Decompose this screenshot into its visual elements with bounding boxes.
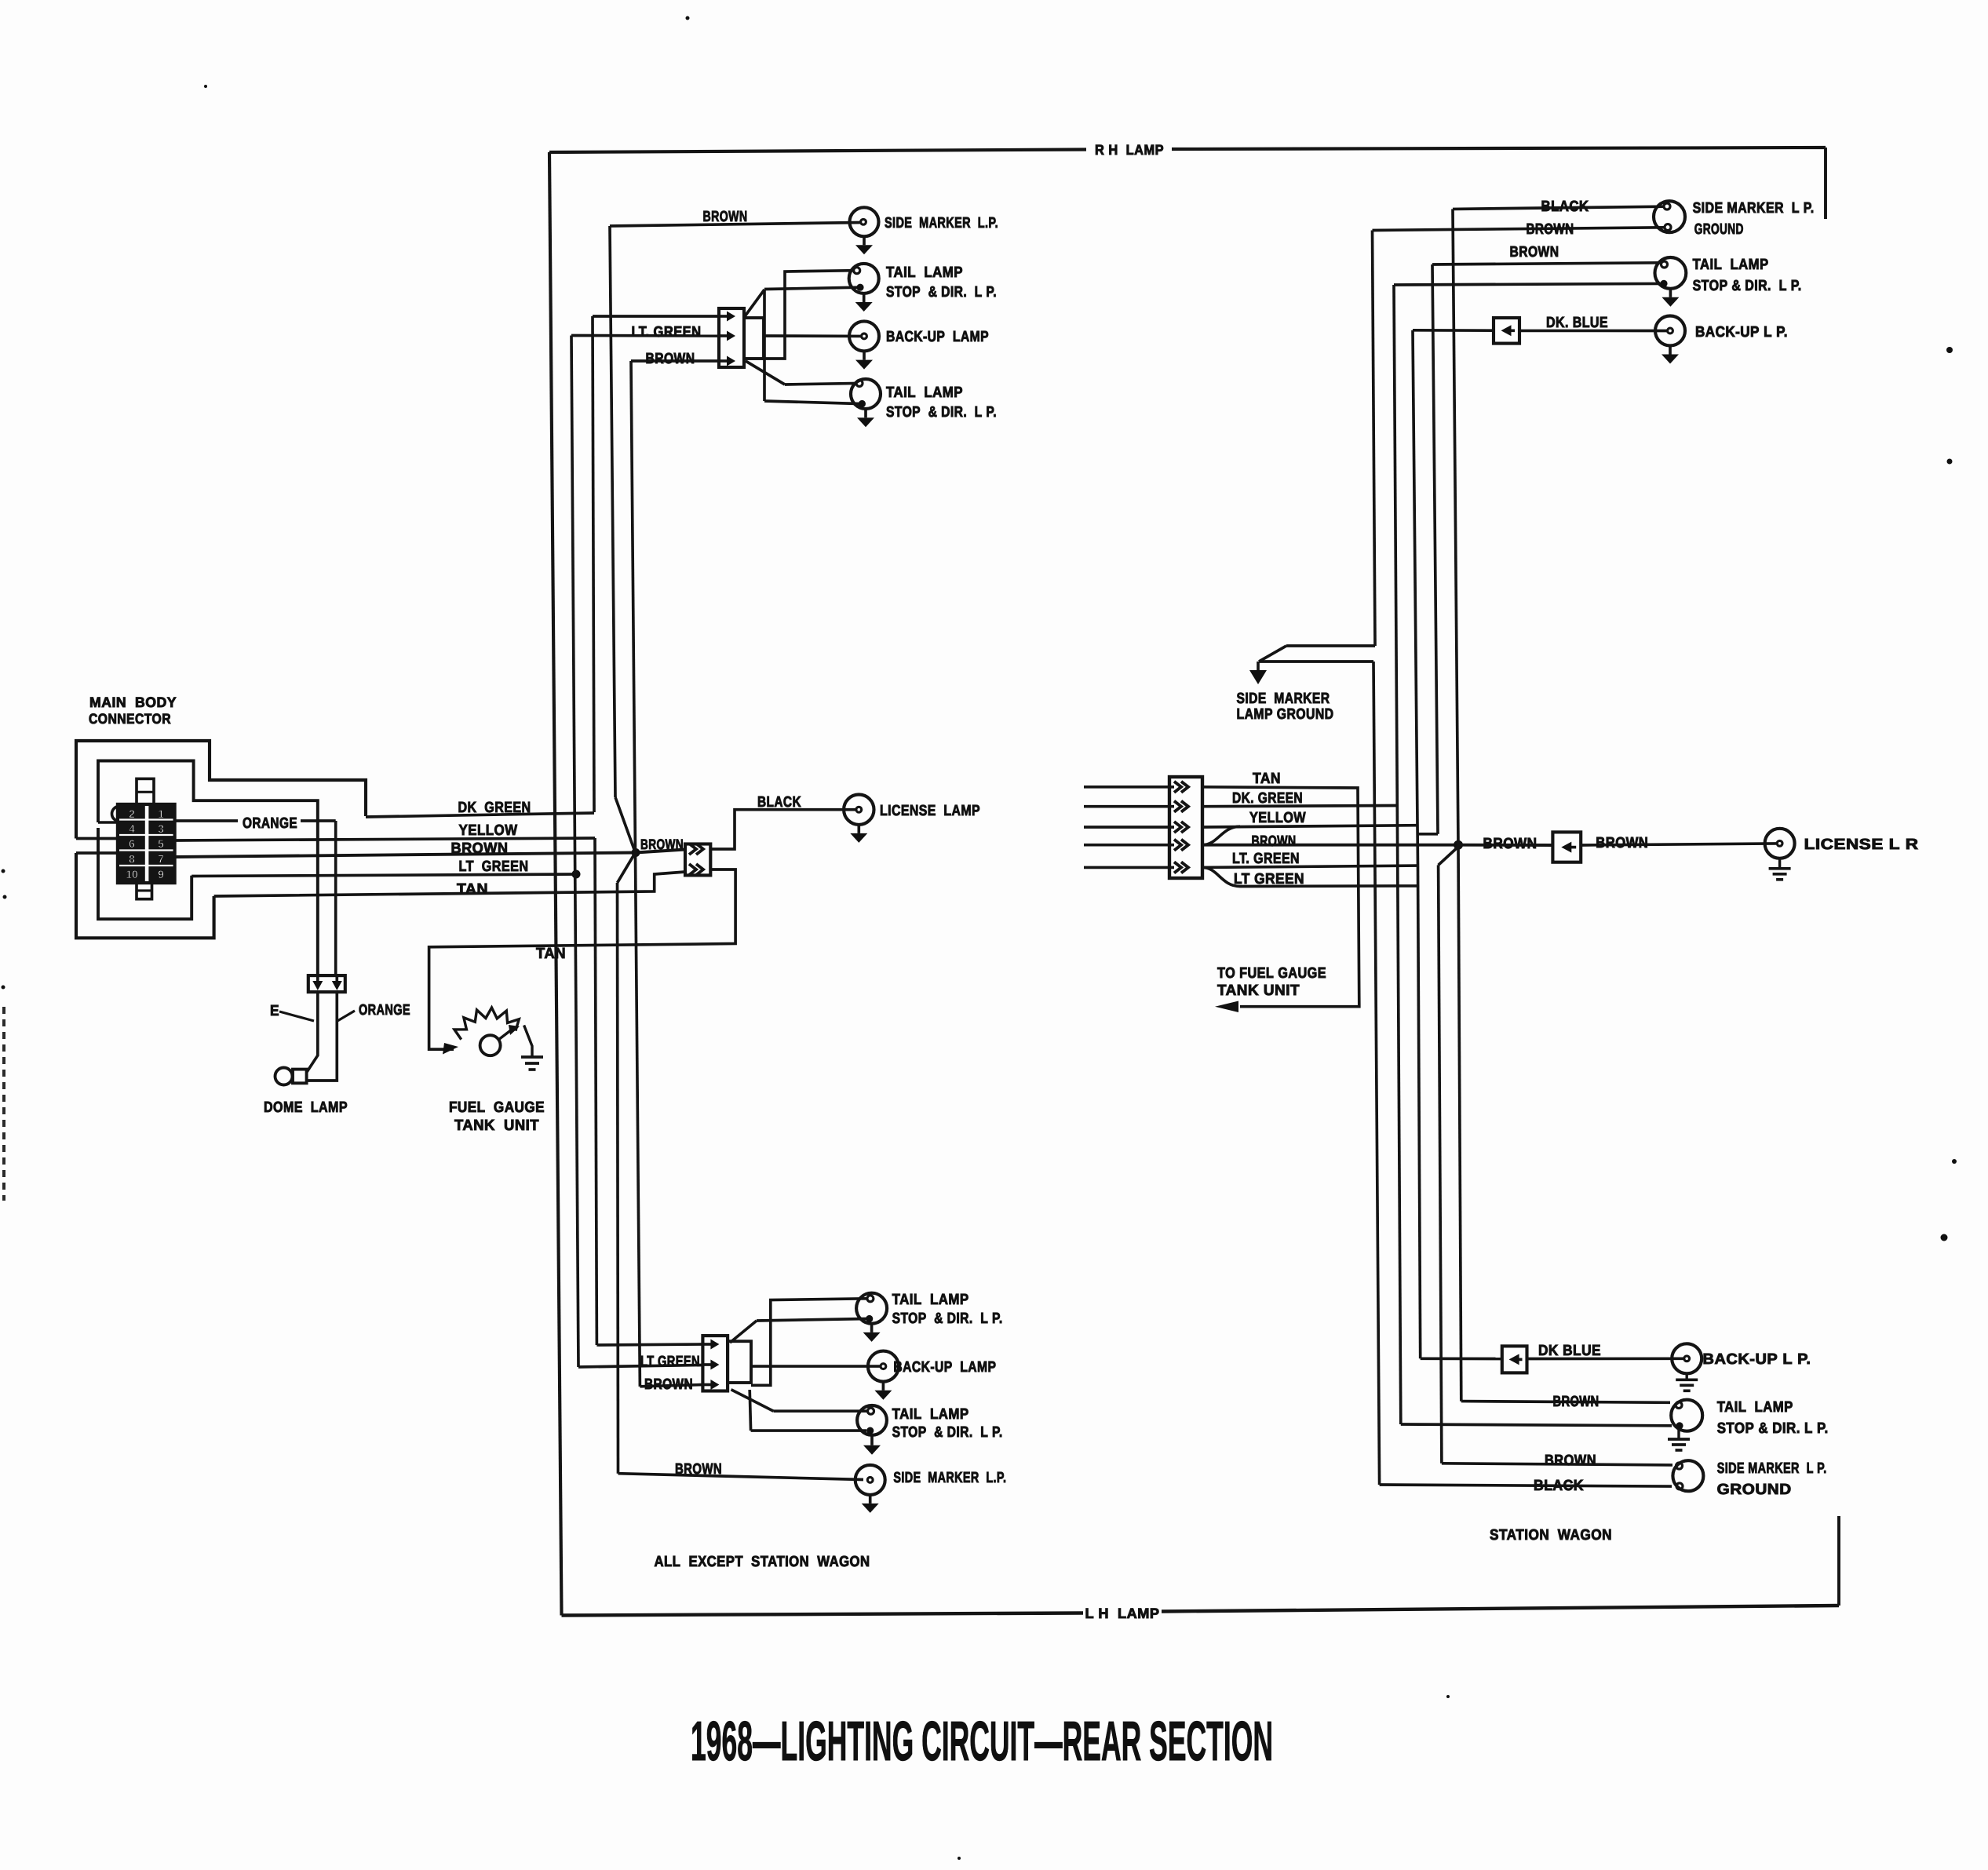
ground arrow below tail lamp 4 [870,1435,874,1445]
stub wire into pin YELLOW [1084,826,1174,829]
bus v3L diagonal out of BROWN junction [618,853,636,884]
svg-text:DK BLUE: DK BLUE [1538,1343,1601,1359]
wire LT GREEN to LH connector pin 2 [578,1365,703,1368]
side marker top terminal [1664,203,1670,210]
chassis ground below wagon bottom tail lamp [1677,1430,1680,1439]
svg-text:10: 10 [126,868,138,880]
license connector pin 1 chevrons [689,844,696,855]
svg-text:STOP & DIR. L P.: STOP & DIR. L P. [1693,278,1802,294]
lamp BACK-UP LAMP (RH) [764,334,861,337]
svg-text:4: 4 [129,822,135,835]
svg-text:TAN: TAN [1253,771,1281,787]
wire BROWN license connector to license lamp [1581,844,1776,845]
scan speck [1952,1159,1957,1164]
dome connector pin E arrow down [316,976,319,982]
fuel gauge wiper arm [498,1030,512,1040]
main body connector block [118,804,175,883]
svg-text:LICENSE L R: LICENSE L R [1804,837,1919,853]
tail lamp 1 tail terminal [854,268,860,274]
main body connector: inner outline lower (LT GREEN route) [98,828,192,919]
wagon bottom tail stop terminal dot [1676,1422,1683,1429]
bus v2 (DK GREEN stop/dir feed) [1394,285,1397,806]
main body connector: outer outline left stub upper [76,837,118,840]
svg-text:TAIL LAMP: TAIL LAMP [886,385,963,401]
scan speck [1946,347,1953,353]
main body connector block: center divider channel [145,806,149,881]
wire to DK BLUE connector (wagon top) [1413,329,1494,332]
wire BROWN to wagon top tail lamp [1432,263,1662,264]
ground arrow below wagon top tail lamp [1669,289,1672,297]
ground arrow below LH side marker [869,1495,872,1504]
svg-text:LT GREEN: LT GREEN [640,1354,700,1370]
wire BLACK to wagon top side marker [1453,206,1664,209]
bus v2L upper (DK GREEN feed to top connector) [593,316,594,812]
main body connector block: row separators [119,818,173,820]
svg-text:YELLOW: YELLOW [1249,810,1306,826]
main body connector block: bottom tab [137,883,152,899]
wire LT GREEN (wagon) lower branch with curve [1202,867,1418,886]
dome lamp connector (2-pin) [308,975,345,992]
svg-text:LT GREEN: LT GREEN [459,858,529,875]
wire ORANGE below connector to dome lamp [307,992,337,1081]
station wagon connector pin BROWN chevrons [1174,840,1181,851]
wire BLACK ground wagon bottom side marker [1380,1485,1672,1486]
wire TAN to fuel gauge (license pin2 exit loop) [429,869,736,1049]
lamp TAIL LAMP 1 (RH) [849,264,879,293]
bus v5 (BLACK / BROWN tail feed) [1453,209,1458,844]
junction dot BROWN node (wagon) [1454,840,1463,850]
svg-text:BLACK: BLACK [1534,1478,1584,1494]
stub wire into pin BROWN [1084,844,1174,847]
svg-text:MAIN BODY: MAIN BODY [89,694,177,710]
lamp TAIL LAMP 3 (LH) [856,1293,887,1324]
svg-text:TAN: TAN [536,946,566,962]
main body connector: outer harness outline upper-left [76,741,366,839]
station wagon connector pin YELLOW chevrons [1174,822,1181,833]
wire LT GREEN to RH connector pin 2 [571,334,720,337]
main body connector block: top tab [137,778,154,804]
svg-text:BROWN: BROWN [675,1461,722,1478]
connector DK BLUE (wagon top) [1494,318,1519,344]
wire YELLOW (wagon) to bus v4 with jog [1202,826,1417,827]
svg-text:DK. GREEN: DK. GREEN [1232,790,1303,807]
svg-text:FUEL GAUGE: FUEL GAUGE [449,1099,545,1116]
wire DK BLUE to back-up lamp (wagon top) [1519,330,1667,333]
svg-text:TAIL LAMP: TAIL LAMP [1693,257,1769,273]
station wagon connector pin LT GREEN chevrons [1174,862,1181,873]
scan speck [3,895,7,899]
LH connector pin 3 arrow [703,1383,713,1387]
svg-text:BROWN: BROWN [1510,244,1559,261]
svg-text:BROWN: BROWN [1596,835,1648,851]
wire BROWN (block through junction to license connector) [175,853,637,858]
fuel gauge right lead to ground [524,1026,532,1057]
ground arrow below tail lamp 1 [863,293,866,302]
wire LT GREEN (wagon) upper [1202,866,1418,867]
side marker ground terminal [1665,224,1671,231]
lamp SIDE MARKER (wagon bottom) [1672,1460,1703,1491]
svg-text:BLACK: BLACK [757,794,801,811]
svg-text:9: 9 [158,868,164,880]
tail lamp 3 tail terminal [867,1296,874,1302]
svg-text:SIDE MARKER L.P.: SIDE MARKER L.P. [885,215,998,231]
scan speck [958,1857,961,1860]
svg-text:STOP & DIR. L P.: STOP & DIR. L P. [886,284,997,301]
wire BROWN pin curve up branch [1202,826,1240,845]
LH lamp connector inner [728,1341,751,1383]
LH connector pin 2 arrow [703,1363,713,1366]
frame: RH/LH lamp border, top line left of RH LAMP label [549,150,1086,153]
wagon bottom tail top terminal [1676,1402,1682,1409]
svg-text:TAIL LAMP: TAIL LAMP [1717,1399,1793,1416]
wire: pin3 up to tail lamp 3 tail filament [751,1299,867,1386]
frame: right border stub bottom [1837,1516,1840,1606]
wire to DK BLUE connector (wagon bottom) [1421,1357,1502,1360]
RH lamp connector (3-pin) outer [719,308,744,367]
wagon bottom side marker top terminal [1676,1463,1683,1469]
svg-text:TAIL LAMP: TAIL LAMP [892,1406,969,1423]
wire ORANGE vertical drop to dome connector [334,821,337,975]
wire ORANGE (block to dome lamp drop) [175,819,239,822]
svg-text:LT GREEN: LT GREEN [1234,871,1304,888]
LH connector pin 1 arrow [703,1343,713,1346]
wire BROWN to LH side marker [618,1474,864,1480]
wagon bottom side marker ground terminal [1676,1483,1683,1489]
tail lamp 2 stop terminal dot [859,400,866,407]
lamp SIDE MARKER L.P. (LH) [855,1465,885,1495]
svg-text:2: 2 [129,807,135,820]
station wagon connector pin TAN chevrons [1174,782,1181,793]
svg-text:STOP & DIR. L P.: STOP & DIR. L P. [892,1310,1003,1327]
bus v2L lower (YELLOW feed to bottom connector) [595,838,596,1345]
svg-text:YELLOW: YELLOW [459,822,518,839]
bus v1L LT GREEN vertical [571,336,578,1368]
tail lamp 1 stop terminal dot [856,284,863,291]
wire DK GREEN (from outer outline to bus v2L) [366,813,594,817]
chassis ground below wagon bottom back-up [1685,1373,1687,1380]
scan speck [204,85,207,88]
svg-text:BACK-UP L P.: BACK-UP L P. [1703,1351,1811,1368]
wire: pin3 diagonal to tail lamp 4 tail filament [731,1390,774,1412]
LH lamp connector (3-pin) outer [702,1336,728,1391]
wire LT GREEN (inner outline to bus v1L) [192,874,576,877]
stub wire into pin DK GREEN [1084,805,1174,808]
svg-text:BLACK: BLACK [1541,199,1589,215]
scan speck [1947,459,1953,465]
scan speck [2,869,5,873]
wire to LH connector pin 1 (from v2L) [596,1344,703,1345]
chassis ground below license L R [1778,858,1781,869]
license connector pin 2 chevrons [689,864,696,875]
bus v3L BROWN side-marker vertical upper [610,226,615,797]
fuel gauge float circle [480,1035,501,1055]
scan speck [1446,1695,1450,1698]
svg-text:CONNECTOR: CONNECTOR [89,711,171,727]
svg-text:E: E [270,1003,279,1019]
main body connector: outer harness outline lower-left [76,853,214,938]
svg-text:DK GREEN: DK GREEN [458,800,531,816]
svg-text:BROWN: BROWN [1527,221,1574,238]
junction diagonal to bus v4 lower [1439,847,1458,865]
bus v4 upper (YELLOW feed) [1432,264,1438,834]
wire BROWN junction to license connector (wagon) [1458,844,1552,847]
wagon tail top terminal [1662,261,1668,268]
svg-text:STOP & DIR. L P.: STOP & DIR. L P. [886,404,997,421]
dome lamp bulb [293,1070,307,1084]
svg-text:ORANGE: ORANGE [359,1002,410,1019]
main body connector block: rounded bump top-left [112,807,120,822]
wire stop/dir to wagon bottom tail lamp [1401,1424,1672,1426]
bus v1 upper (BROWN ground, wagon top) [1373,231,1376,647]
svg-text:GROUND: GROUND [1717,1482,1792,1498]
stub wire into pin LT GREEN [1084,866,1174,869]
svg-text:STOP & DIR. L P.: STOP & DIR. L P. [1717,1420,1829,1437]
ground arrow below RH side marker [863,236,866,245]
wire: drop to tail lamp 2 stop filament [763,290,766,401]
svg-text:7: 7 [158,853,164,866]
bus v1 lower (BLACK ground, wagon bottom) [1259,660,1373,663]
bus v4L BROWN vertical [631,361,640,1387]
svg-text:BROWN: BROWN [644,1376,693,1393]
svg-text:LAMP GROUND: LAMP GROUND [1237,706,1334,723]
svg-text:SIDE MARKER: SIDE MARKER [1237,691,1330,707]
scan speck [1941,1234,1948,1241]
svg-text:1: 1 [158,807,164,820]
frame: bottom line left of L H LAMP label [562,1613,1084,1616]
svg-text:TO FUEL GAUGE: TO FUEL GAUGE [1217,965,1326,982]
chassis ground below fuel gauge [521,1055,543,1059]
lamp TAIL LAMP 2 (RH) [851,379,881,409]
junction dot LT GREEN node on v1L [572,870,581,879]
wire DK BLUE to back-up lamp (wagon bottom) [1527,1357,1684,1360]
dome connector pin ORANGE arrow down [335,976,338,982]
main body connector: inner outline left stub [98,821,118,823]
junction dot BROWN node [632,848,640,857]
wire DK GREEN (wagon) to bus v2 [1202,806,1397,807]
svg-text:LT. GREEN: LT. GREEN [632,324,702,341]
wire BROWN (wagon) to junction and license connector [1202,844,1458,847]
ground arrow below back-up lamp [863,352,866,360]
frame: right border stub top [1824,148,1827,219]
lamp LICENSE LAMP circle [844,794,874,824]
svg-text:BROWN: BROWN [1252,833,1297,850]
wire TAN (wagon) to fuel gauge arrow [1202,787,1359,1007]
side marker lamp ground arrow assembly [1286,644,1375,647]
svg-text:TAIL LAMP: TAIL LAMP [892,1292,969,1308]
svg-text:TAN: TAN [457,881,488,898]
lamp SIDE MARKER L P. (wagon top) [1654,201,1685,232]
ground arrow below license lamp [857,825,860,833]
scan artifact: left page edge dashes [2,1007,5,1201]
ground arrow below tail lamp 3 [870,1324,874,1332]
svg-text:LT. GREEN: LT. GREEN [1232,851,1300,867]
svg-text:ORANGE: ORANGE [243,815,297,832]
wire BROWN to RH connector pin 3 [631,359,720,363]
ground arrow below tail lamp 2 [864,409,867,417]
ground arrow below wagon top back-up lamp [1669,346,1672,355]
svg-text:BACK-UP L P.: BACK-UP L P. [1695,324,1788,341]
tail lamp 2 tail terminal [856,380,863,386]
svg-text:BROWN: BROWN [640,837,684,852]
svg-text:SIDE MARKER L.P.: SIDE MARKER L.P. [893,1470,1006,1486]
svg-text:1968—LIGHTING CIRCUIT—REAR SEC: 1968—LIGHTING CIRCUIT—REAR SECTION [691,1711,1273,1773]
arrowhead TO FUEL GAUGE TANK UNIT [1215,1001,1238,1013]
ground arrow below back-up lamp (LH) [882,1382,885,1391]
main body connector: outer outline left stub lower [76,851,118,855]
bus v3 (LT GREEN back-up feed) [1413,330,1418,866]
scan speck [2,986,5,990]
svg-text:8: 8 [129,853,135,866]
connector DK BLUE (wagon bottom) [1502,1346,1527,1372]
wire BROWN to wagon bottom tail lamp [1461,1402,1670,1403]
fuel gauge rheostat zigzag arc [454,1008,519,1040]
svg-text:STOP & DIR. L P.: STOP & DIR. L P. [892,1424,1003,1441]
svg-text:L H LAMP: L H LAMP [1085,1606,1160,1621]
wire E below connector to dome lamp [307,992,318,1072]
wire BROWN ground wagon top side marker [1373,228,1665,231]
wire: pin3 to tail lamp 1 tail filament [764,271,855,359]
wire: drop to tail lamp 4 stop filament [750,1390,750,1431]
svg-text:6: 6 [129,837,135,850]
bus v3L diagonal into BROWN junction [615,797,636,853]
svg-text:SIDE MARKER L P.: SIDE MARKER L P. [1693,200,1815,217]
bus v4 lower (BROWN side marker feed) [1439,865,1442,1463]
svg-text:BROWN: BROWN [703,209,748,225]
scan speck [686,16,690,20]
RH lamp connector inner [744,318,764,359]
svg-text:3: 3 [158,822,164,835]
station wagon connector pin DK GREEN chevrons [1174,801,1181,812]
wagon tail stop terminal dot [1660,280,1667,287]
lamp TAIL LAMP (wagon bottom) [1671,1400,1702,1431]
svg-text:DOME LAMP: DOME LAMP [264,1099,348,1116]
tail lamp 4 stop terminal dot [866,1427,874,1434]
lamp BACK-UP L P. (wagon bottom) [1672,1343,1702,1373]
svg-text:STATION WAGON: STATION WAGON [1490,1527,1612,1544]
svg-text:R H LAMP: R H LAMP [1095,142,1164,158]
svg-text:TAIL LAMP: TAIL LAMP [886,264,963,281]
wire: pin1 diagonal to tail lamp 3 stop filament [730,1321,757,1343]
wire YELLOW (block to bus v2L lower) [175,838,596,840]
svg-text:TANK UNIT: TANK UNIT [1217,982,1300,999]
main body connector: inner outline upper (E wire route) [98,761,318,976]
tail lamp 4 tail terminal [868,1408,874,1414]
lamp TAIL LAMP 4 (LH) [857,1405,887,1435]
svg-text:LICENSE LAMP: LICENSE LAMP [880,803,980,819]
wire BROWN to wagon bottom side marker [1442,1464,1672,1465]
frame: bottom line right of L H LAMP label [1162,1606,1839,1612]
svg-text:TANK UNIT: TANK UNIT [454,1117,539,1134]
tail lamp 3 stop terminal dot [866,1315,873,1322]
RH connector pin 1 arrow [720,315,729,318]
stub wire into pin TAN [1084,786,1174,789]
RH connector pin 3 arrow [720,359,729,363]
svg-text:BROWN: BROWN [646,351,695,367]
svg-text:DK. BLUE: DK. BLUE [1546,315,1608,331]
wire BROWN to LH connector pin 3 [640,1385,703,1387]
bus v3L BROWN side-marker vertical lower [618,883,618,1474]
license lamp connector (2-pin) [685,844,710,876]
svg-text:BROWN: BROWN [1553,1394,1600,1410]
wire: pin1 diagonal to tail lamp 1 stop filament [744,290,764,318]
svg-text:ALL EXCEPT STATION WAGON: ALL EXCEPT STATION WAGON [655,1554,870,1570]
frame: left border line [549,152,562,1616]
frame: top line right of RH LAMP label [1172,148,1826,149]
fuel gauge wiper contact arrow [429,1048,446,1051]
lamp BACK-UP LAMP (LH) [751,1365,880,1368]
svg-text:BROWN: BROWN [451,840,509,857]
lamp SIDE MARKER L.P. (RH) [850,207,879,236]
svg-text:5: 5 [158,837,164,850]
wire: pin3 diagonal to tail lamp 2 tail filament [746,361,785,385]
svg-text:GROUND: GROUND [1694,221,1744,238]
wire BLACK (license connector to license lamp) [710,810,856,849]
svg-text:BACK-UP LAMP: BACK-UP LAMP [893,1359,996,1376]
lamp BACK-UP L P. (wagon top) [1655,316,1685,346]
station wagon connector (5-pin) [1169,777,1202,878]
RH connector pin 2 arrow [720,334,729,337]
lamp LICENSE L R (wagon) [1765,829,1795,858]
wire TAN (outer outline, steps up to license connector pin 2) [214,872,685,896]
svg-text:SIDE MARKER L P.: SIDE MARKER L P. [1717,1460,1827,1477]
svg-text:BROWN: BROWN [1545,1453,1596,1469]
svg-text:BACK-UP LAMP: BACK-UP LAMP [886,329,989,345]
connector square license (wagon) [1552,832,1581,862]
wire stop/dir to wagon top tail lamp [1394,283,1661,285]
wire to RH connector pin 1 (from v2L) [593,315,720,318]
svg-text:BROWN: BROWN [1483,836,1538,852]
wire BROWN to RH side marker [610,223,861,227]
lamp TAIL LAMP (wagon top) [1655,257,1687,289]
